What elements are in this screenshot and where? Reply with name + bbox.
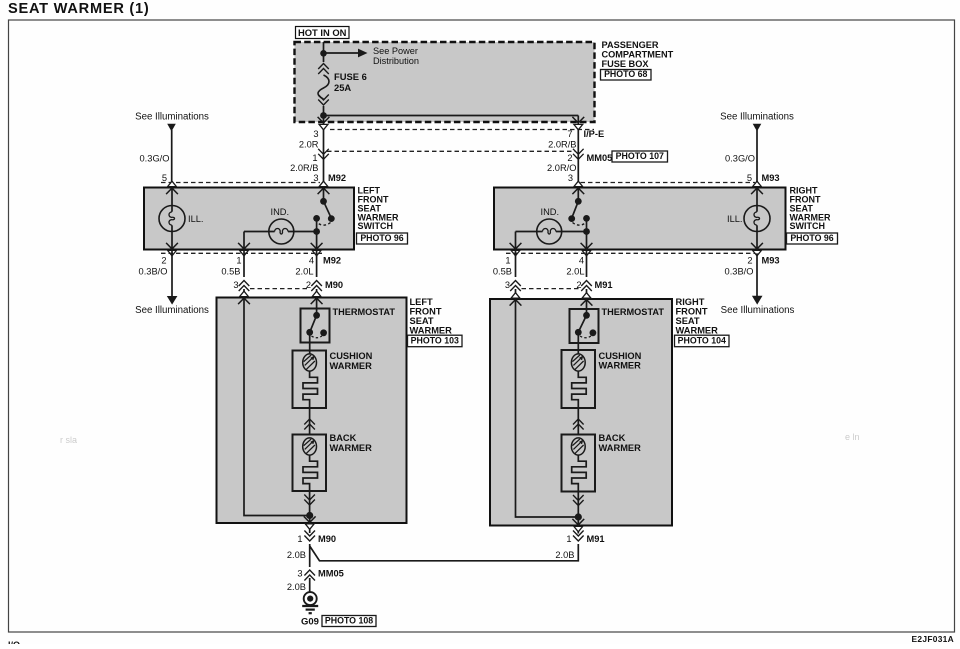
svg-text:THERMOSTAT: THERMOSTAT (333, 307, 396, 317)
svg-text:E2JF031A: E2JF031A (912, 634, 954, 644)
connector M91 pin 2 (581, 281, 592, 292)
wire: warmer box exit (left) (309, 516, 311, 534)
svg-text:See Illuminations: See Illuminations (135, 112, 209, 123)
switch (left): contacts and blade (320, 198, 327, 205)
right switch label (790, 186, 831, 232)
svg-text:BACK: BACK (599, 433, 626, 443)
svg-text:G09: G09 (301, 617, 319, 628)
wire: fuse output bus inside fuse box (324, 115, 579, 117)
wire: back warmer to junction (right) (577, 492, 579, 518)
svg-text:THERMOSTAT: THERMOSTAT (602, 307, 665, 317)
svg-text:M90: M90 (318, 534, 336, 544)
svg-text:M93: M93 (762, 256, 780, 266)
svg-text:1: 1 (505, 256, 510, 266)
wire 0.3G/O (left) (171, 130, 173, 188)
svg-text:3: 3 (297, 569, 302, 579)
svg-text:SEAT: SEAT (410, 316, 434, 326)
lamp IND (right) (537, 219, 562, 244)
left front seat warmer box (217, 298, 407, 524)
wire: switch pin1 to M91 pin3 (right) (515, 250, 517, 278)
label box HOT IN ON (296, 27, 350, 39)
svg-text:1: 1 (566, 534, 571, 544)
svg-text:0.3G/O: 0.3G/O (725, 153, 755, 163)
back warmer (left) (293, 435, 327, 492)
wire into thermostat (right) (581, 300, 593, 306)
svg-text:1: 1 (312, 153, 317, 163)
connector M91 pin 3 (510, 281, 521, 292)
svg-text:I/O: I/O (8, 640, 20, 644)
connector between warmers (right) (577, 408, 579, 435)
wire: left feed from fuse box (323, 116, 325, 188)
svg-text:IND.: IND. (271, 207, 290, 217)
svg-text:0.3B/O: 0.3B/O (725, 266, 754, 276)
svg-text:M93: M93 (762, 173, 780, 183)
wire: switch pin4 to M90 pin2 (left) (316, 250, 318, 278)
connector M90 pin 3 (239, 281, 250, 292)
wire: bypass from M91 pin3 (right) (516, 299, 576, 517)
lamp ILL (right) (744, 206, 770, 232)
connector M90 pin 1 (304, 531, 315, 542)
svg-text:See Illuminations: See Illuminations (135, 305, 209, 316)
wire: ILL lamp branch (left) (171, 188, 173, 212)
svg-text:PHOTO 107: PHOTO 107 (616, 151, 664, 161)
wire: IND lamp branch (right) (515, 232, 517, 250)
connector MM05 pin 2 (573, 149, 584, 160)
svg-text:5: 5 (162, 173, 167, 183)
svg-text:0.5B: 0.5B (493, 266, 512, 276)
svg-text:M92: M92 (323, 256, 341, 266)
left switch label (358, 186, 399, 232)
dashed line: connector I/P-E (330, 129, 594, 131)
svg-text:FUSE 6: FUSE 6 (334, 71, 367, 82)
svg-text:M91: M91 (587, 534, 605, 544)
svg-text:SEAT WARMER (1): SEAT WARMER (1) (8, 1, 150, 17)
photo ref PHOTO 103 (408, 335, 463, 347)
svg-text:0.3B/O: 0.3B/O (139, 266, 168, 276)
svg-text:2.0R/O: 2.0R/O (547, 163, 576, 173)
svg-text:CUSHION: CUSHION (330, 351, 373, 361)
ground G09 (304, 592, 317, 605)
svg-text:0.5B: 0.5B (221, 266, 240, 276)
svg-text:5: 5 (747, 173, 752, 183)
lamp IND (left) (269, 219, 294, 244)
dashed line: connector M90 (mid) (250, 288, 310, 290)
right warmer label (676, 297, 719, 336)
svg-text:Distribution: Distribution (373, 56, 419, 66)
svg-text:FRONT: FRONT (410, 306, 442, 316)
node: warmer common junction (right) (575, 513, 582, 520)
svg-text:3: 3 (313, 173, 318, 183)
svg-text:See Power: See Power (373, 46, 418, 56)
svg-text:3: 3 (505, 280, 510, 290)
svg-text:I/P-E: I/P-E (584, 129, 605, 139)
connector MM05 pin 3 (304, 570, 315, 581)
wire: ground bus (309, 544, 311, 567)
svg-text:2.0R: 2.0R (299, 140, 319, 150)
svg-text:4: 4 (579, 256, 584, 266)
back warmer (right) (562, 435, 596, 492)
dashed line: connector M92 (top) (161, 182, 320, 184)
svg-text:3: 3 (313, 129, 318, 139)
connector at fuse box edge (left) (318, 117, 330, 123)
wire: bypass from M90 pin3 (left) (244, 298, 307, 516)
svg-text:M92: M92 (328, 173, 346, 183)
right front seat warmer box (490, 299, 672, 526)
svg-text:1: 1 (236, 256, 241, 266)
svg-text:0.3G/O: 0.3G/O (140, 153, 170, 163)
svg-text:LEFT: LEFT (410, 297, 434, 307)
switch (right): contacts and blade (575, 198, 582, 205)
wire: switch output to pin 4 (right) (586, 218, 588, 249)
connector MM05 pin 1 (318, 149, 329, 160)
dashed line: connector M93 (top) (581, 182, 756, 184)
svg-text:WARMER: WARMER (410, 326, 453, 336)
wire: ILL lamp branch (right) (756, 188, 758, 212)
svg-text:2: 2 (161, 256, 166, 266)
cushion warmer (right) (562, 350, 596, 408)
svg-text:2: 2 (747, 256, 752, 266)
wire: thermostat to cushion warmer (left) (309, 332, 311, 354)
wire 0.3B/O to See Illuminations (left) (171, 250, 173, 297)
wire 0.3G/O (right) (756, 130, 758, 188)
svg-text:2.0B: 2.0B (287, 582, 306, 592)
svg-text:4: 4 (309, 256, 314, 266)
dashed line: connector M92 (bottom) (161, 252, 322, 254)
wire 0.3B/O to See Illuminations (right) (756, 253, 758, 296)
lamp ILL (left) (159, 206, 185, 232)
svg-text:2.0R/B: 2.0R/B (548, 140, 576, 150)
photo ref PHOTO 104 (675, 335, 730, 347)
wire: switch pin1 to M90 pin3 (left) (243, 250, 245, 278)
svg-text:WARMER: WARMER (330, 361, 373, 371)
svg-text:PHOTO 103: PHOTO 103 (411, 336, 459, 346)
switch (right): feed wire (577, 188, 579, 202)
svg-text:PHOTO 104: PHOTO 104 (678, 336, 726, 346)
svg-text:PHOTO 108: PHOTO 108 (325, 615, 373, 625)
svg-text:ILL.: ILL. (188, 214, 204, 224)
svg-text:PASSENGER: PASSENGER (602, 40, 659, 50)
svg-text:CUSHION: CUSHION (599, 351, 642, 361)
svg-text:2: 2 (576, 280, 581, 290)
ghost bleed-through text (60, 415, 860, 516)
photo ref PHOTO 68 (601, 70, 652, 81)
dashed line: connector MM05 (327, 150, 575, 152)
svg-text:SWITCH: SWITCH (790, 221, 826, 231)
node: IND tap junction (left) (313, 228, 320, 235)
switch (left): feed wire (323, 188, 325, 202)
svg-text:WARMER: WARMER (599, 361, 642, 371)
svg-text:RIGHT: RIGHT (676, 297, 705, 307)
arrow: see power distribution (324, 52, 359, 54)
svg-text:7: 7 (567, 129, 572, 139)
wire to ground (309, 578, 311, 593)
svg-text:ILL.: ILL. (727, 214, 743, 224)
svg-text:2.0L: 2.0L (295, 266, 313, 276)
svg-text:PHOTO 96: PHOTO 96 (790, 233, 833, 243)
photo ref PHOTO 108 (322, 616, 376, 627)
svg-text:FRONT: FRONT (676, 306, 708, 316)
svg-text:3: 3 (233, 280, 238, 290)
svg-text:SWITCH: SWITCH (358, 221, 394, 231)
connector M90 pin 2 (311, 281, 322, 292)
svg-text:2: 2 (567, 153, 572, 163)
svg-text:SEAT: SEAT (676, 316, 700, 326)
wire: back warmer to junction (left) (309, 491, 311, 516)
fuse F6 25A (323, 42, 325, 53)
node: warmer common junction (left) (306, 512, 313, 519)
connector between warmers (left) (309, 408, 311, 435)
dashed line: connector M93 (bottom) (506, 252, 755, 254)
left front seat warmer switch box (144, 188, 354, 250)
svg-text:HOT IN ON: HOT IN ON (298, 27, 347, 38)
wire into thermostat (left) (311, 298, 323, 304)
svg-text:2.0R/B: 2.0R/B (290, 163, 318, 173)
fuse box (passenger compartment) (295, 42, 595, 122)
wire: IND lamp branch (left) (243, 232, 245, 250)
svg-text:FUSE BOX: FUSE BOX (602, 59, 650, 69)
svg-text:M91: M91 (595, 280, 613, 290)
svg-text:WARMER: WARMER (676, 326, 719, 336)
svg-text:PHOTO 68: PHOTO 68 (604, 69, 647, 79)
svg-text:See Illuminations: See Illuminations (720, 112, 794, 123)
dashed line: connector M91 (mid) (522, 288, 582, 290)
photo ref PHOTO 96 (right) (787, 233, 838, 244)
wire: switch pin4 to M91 pin2 (right) (586, 250, 588, 278)
svg-text:e ln: e ln (845, 432, 860, 442)
wire: right feed from fuse box (577, 116, 579, 188)
svg-text:2.0B: 2.0B (287, 550, 306, 560)
node: fuse output junction (320, 112, 327, 119)
svg-text:3: 3 (568, 173, 573, 183)
svg-text:M90: M90 (325, 280, 343, 290)
thermostat (right) (570, 309, 599, 343)
thermostat (left) (301, 309, 330, 343)
svg-text:r sla: r sla (60, 435, 77, 445)
svg-text:WARMER: WARMER (330, 443, 373, 453)
svg-text:See Illuminations: See Illuminations (721, 305, 795, 316)
wire: thermostat to cushion warmer (right) (577, 332, 579, 354)
svg-text:2.0L: 2.0L (566, 266, 584, 276)
svg-text:COMPARTMENT: COMPARTMENT (602, 50, 674, 60)
svg-text:BACK: BACK (330, 433, 357, 443)
wire: warmer box exit (right) (577, 517, 579, 534)
svg-text:2: 2 (306, 280, 311, 290)
photo ref PHOTO 96 (left) (357, 233, 408, 244)
wire: switch output to pin 4 (left) (316, 218, 318, 249)
svg-text:MM05: MM05 (318, 569, 344, 579)
left warmer label (410, 297, 453, 336)
connector M91 pin 1 (573, 531, 584, 542)
photo ref PHOTO 107 (612, 151, 668, 162)
svg-text:WARMER: WARMER (599, 443, 642, 453)
node: IND tap junction (right) (583, 228, 590, 235)
svg-text:1: 1 (297, 534, 302, 544)
svg-text:2.0B: 2.0B (555, 550, 574, 560)
right front seat warmer switch box (494, 188, 786, 250)
svg-text:PHOTO 96: PHOTO 96 (360, 233, 403, 243)
svg-text:IND.: IND. (541, 207, 560, 217)
connector at fuse box edge (right) (572, 117, 584, 123)
svg-text:MM05: MM05 (587, 153, 613, 163)
svg-text:25A: 25A (334, 82, 351, 93)
node: fuse feed junction (320, 50, 327, 57)
cushion warmer (left) (293, 351, 327, 409)
